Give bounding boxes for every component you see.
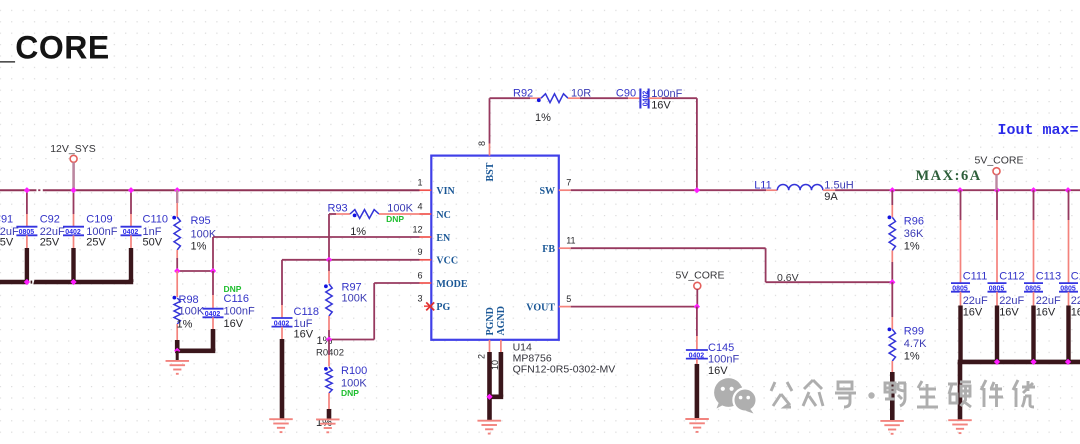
pin 12 EN of U14: [412, 224, 451, 243]
junction dots output ground bus: [994, 359, 1000, 365]
resistor R93 (DNP): [328, 202, 420, 238]
op-amp U14 MP8756 body: [431, 156, 559, 340]
svg-text:NC: NC: [436, 210, 450, 221]
resistor R96: [888, 190, 925, 282]
svg-text:7: 7: [566, 178, 571, 188]
node divider: wire to C116 and EN: [177, 270, 213, 272]
svg-text:R92: R92: [513, 87, 533, 99]
svg-text:C114: C114: [1071, 271, 1080, 283]
svg-text:C92: C92: [40, 213, 60, 225]
svg-text:9: 9: [417, 247, 422, 257]
svg-text:VOUT: VOUT: [526, 302, 555, 313]
svg-text:4.7K: 4.7K: [904, 338, 927, 350]
svg-text:1%: 1%: [177, 319, 193, 331]
svg-text:1: 1: [417, 178, 422, 188]
pin 3 PG of U14 (no connect): [417, 294, 450, 313]
wire FB net: [571, 247, 766, 249]
ground symbol GND divider: [176, 351, 179, 361]
svg-text:25V: 25V: [0, 236, 14, 248]
junction dot R97 bottom: [326, 336, 332, 342]
svg-text:0805: 0805: [989, 286, 1005, 293]
ground symbol GND output caps: [948, 419, 972, 421]
svg-text:1%: 1%: [904, 241, 920, 253]
watermark WeChat icon: [714, 378, 757, 413]
svg-text:0402: 0402: [65, 229, 81, 236]
svg-text:C112: C112: [999, 271, 1024, 283]
wire BST to R92: [489, 98, 491, 143]
svg-text:9A: 9A: [824, 191, 838, 203]
svg-text:DNP: DNP: [341, 388, 359, 398]
svg-text:22uF: 22uF: [999, 295, 1024, 307]
svg-text:4: 4: [417, 201, 422, 211]
svg-text:R95: R95: [191, 215, 211, 227]
svg-text:22uF: 22uF: [1071, 295, 1080, 307]
svg-text:0805: 0805: [19, 229, 35, 236]
pin 6 MODE of U14: [417, 270, 467, 289]
capacitor C90: [616, 88, 683, 112]
svg-text:5: 5: [566, 294, 571, 304]
svg-text:0402: 0402: [123, 229, 139, 236]
svg-text:BST: BST: [485, 162, 496, 181]
junction dots on 12V rail: [24, 187, 30, 193]
pin 2 PGND of U14: [477, 307, 496, 359]
svg-text:16V: 16V: [999, 307, 1019, 319]
svg-text:R0402: R0402: [316, 347, 344, 358]
thick ground bus under output caps: [958, 360, 1080, 365]
svg-text:R96: R96: [904, 215, 924, 227]
junction dot divider left: [174, 268, 180, 274]
ground symbol GND U14: [477, 420, 501, 422]
capacitor C145: [686, 307, 740, 419]
svg-text:16V: 16V: [224, 318, 244, 330]
junction dot VOUT: [694, 303, 700, 309]
junction dots on ground bus: [24, 279, 30, 285]
junction dot divider right: [210, 268, 216, 274]
svg-text:R98: R98: [179, 294, 199, 306]
svg-text:50V: 50V: [143, 236, 163, 248]
svg-text:AGND: AGND: [496, 306, 507, 335]
svg-text:5V_CORE: 5V_CORE: [974, 154, 1023, 166]
capacitor C91 (cut off at left edge): [0, 213, 19, 282]
svg-text:0805: 0805: [1025, 286, 1041, 293]
svg-text:Iout max=: Iout max=: [998, 122, 1079, 139]
svg-text:SW: SW: [539, 186, 555, 197]
thick ground bus under input caps: [0, 280, 133, 285]
U14 designator and part labels: [513, 342, 616, 376]
wire 5V_CORE output rail: [835, 189, 1080, 191]
svg-text:MODE: MODE: [436, 279, 467, 290]
svg-text:_CORE: _CORE: [0, 30, 110, 66]
wire R95 bottom to divider node: [176, 258, 178, 271]
svg-text:6: 6: [417, 270, 422, 280]
capacitor C112: [988, 190, 1025, 362]
svg-text:C118: C118: [294, 306, 319, 318]
svg-text:PGND: PGND: [485, 307, 496, 335]
capacitor C118: [272, 260, 319, 419]
wire break artifact on rail: [36, 189, 42, 192]
svg-text:36K: 36K: [904, 228, 924, 240]
svg-text:2: 2: [477, 354, 487, 359]
svg-text:1%: 1%: [535, 112, 551, 124]
ground symbol GND R99: [880, 420, 904, 422]
svg-text:R100: R100: [341, 365, 367, 377]
svg-text:0805: 0805: [952, 286, 968, 293]
inductor L11: [754, 180, 854, 203]
svg-text:25V: 25V: [86, 236, 106, 248]
svg-text:25V: 25V: [40, 236, 60, 248]
resistor R99: [888, 282, 928, 420]
watermark text gongzhonghao yesheng yingjianlao (drawn strokes): [771, 380, 1035, 407]
capacitor C116 (DNP): [203, 271, 255, 351]
svg-text:100K: 100K: [387, 202, 413, 214]
wire MODE net from R97: [329, 339, 374, 341]
ground symbol GND C145: [685, 418, 709, 420]
wire C90 to SW node: [662, 97, 697, 99]
svg-text:0.6V: 0.6V: [777, 272, 799, 284]
svg-text:22uF: 22uF: [1036, 295, 1061, 307]
svg-text:R93: R93: [328, 203, 348, 215]
svg-text:0805: 0805: [1060, 286, 1076, 293]
wire 12V rail: [0, 189, 420, 191]
svg-text:MAX:6A: MAX:6A: [916, 168, 982, 184]
svg-text:16V: 16V: [1036, 307, 1056, 319]
capacitor C114: [1059, 190, 1080, 362]
capacitor C109: [63, 190, 118, 282]
pin 4 NC of U14: [417, 201, 450, 220]
resistor R97: [317, 260, 368, 347]
svg-text:C110: C110: [143, 213, 168, 225]
junction dot VCC: [326, 257, 332, 263]
svg-text:5V_CORE: 5V_CORE: [675, 270, 724, 282]
wire EN net to U14 pin 12: [213, 236, 420, 238]
svg-text:16V: 16V: [963, 307, 983, 319]
junction dot FB: [889, 279, 895, 285]
capacitor C111: [951, 190, 988, 362]
svg-text:VIN: VIN: [436, 186, 455, 197]
pin 5 VOUT of U14: [526, 294, 571, 313]
pin 9 VCC of U14: [417, 247, 458, 266]
svg-text:0402: 0402: [689, 352, 705, 359]
svg-text:VCC: VCC: [436, 256, 458, 267]
svg-text:22uF: 22uF: [963, 295, 988, 307]
wire R93 to VCC node: [328, 214, 330, 260]
svg-text:16V: 16V: [294, 329, 314, 341]
pin 10 AGND of U14: [490, 306, 507, 370]
svg-text:L11: L11: [754, 180, 772, 192]
svg-text:16V: 16V: [1071, 307, 1080, 319]
svg-text:100K: 100K: [342, 293, 368, 305]
pin 1 VIN of U14: [417, 178, 455, 197]
svg-text:C90: C90: [616, 88, 636, 100]
svg-text:1%: 1%: [904, 351, 920, 363]
svg-text:100K: 100K: [179, 306, 205, 318]
svg-text:0402: 0402: [274, 320, 290, 327]
svg-text:3: 3: [417, 294, 422, 304]
svg-text:EN: EN: [436, 233, 451, 244]
wire VOUT net: [571, 306, 697, 308]
svg-text:1%: 1%: [350, 226, 366, 238]
pin 11 FB of U14: [542, 236, 575, 255]
capacitor C113: [1024, 190, 1061, 362]
svg-text:100nF: 100nF: [708, 353, 739, 365]
bus break artifact: [28, 279, 34, 286]
thick wire R98/C116 to ground: [175, 348, 215, 353]
svg-text:R99: R99: [904, 326, 924, 338]
ground symbol GND R100: [316, 418, 340, 420]
svg-text:1%: 1%: [191, 241, 207, 253]
svg-text:C109: C109: [86, 213, 112, 225]
resistor R92: [513, 87, 591, 124]
svg-text:100nF: 100nF: [224, 306, 255, 318]
junction dot SW-C90: [694, 187, 700, 193]
svg-text:C145: C145: [708, 342, 734, 354]
svg-text:QFN12-0R5-0302-MV: QFN12-0R5-0302-MV: [513, 364, 616, 376]
resistor R98: [173, 271, 205, 351]
svg-text:16V: 16V: [708, 365, 728, 377]
svg-text:0402: 0402: [205, 311, 221, 318]
ground symbol GND C118: [269, 418, 293, 420]
svg-text:C91: C91: [0, 213, 13, 225]
svg-text:C116: C116: [224, 293, 249, 305]
wire SW net: [571, 189, 766, 191]
svg-text:11: 11: [566, 236, 575, 246]
svg-text:0402: 0402: [642, 91, 649, 107]
svg-text:12V_SYS: 12V_SYS: [50, 143, 96, 155]
junction dot at R98 ground: [174, 348, 180, 354]
svg-text:FB: FB: [542, 244, 555, 255]
svg-text:PG: PG: [436, 302, 450, 313]
svg-text:8: 8: [477, 141, 487, 146]
svg-text:DNP: DNP: [386, 214, 404, 224]
junction dots output rail: [889, 187, 895, 193]
wire VCC net: [282, 259, 420, 261]
wire R92 to C90: [580, 97, 628, 99]
resistor R100 (DNP): [316, 340, 367, 430]
pin 7 SW of U14: [539, 178, 571, 197]
resistor R95: [172, 190, 217, 258]
thick wire PGND/AGND to ground: [487, 352, 503, 421]
svg-text:16V: 16V: [651, 100, 671, 112]
pin 8 BST of U14: [477, 141, 496, 182]
svg-text:12: 12: [412, 224, 422, 234]
capacitor C92: [16, 190, 65, 282]
junction dot PGND: [486, 394, 492, 400]
svg-text:C113: C113: [1036, 271, 1061, 283]
capacitor C110: [121, 190, 168, 282]
no-ERC cross at PG pin: [426, 302, 434, 310]
svg-text:C111: C111: [963, 271, 988, 283]
